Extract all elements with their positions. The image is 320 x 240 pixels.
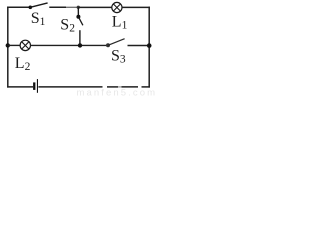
wire bottom-left segment bbox=[7, 86, 33, 88]
battery positive plate (long thin) bbox=[37, 79, 38, 93]
svg-text:manfen5.com: manfen5.com bbox=[77, 88, 158, 97]
switch S2 (vertical branch) bbox=[76, 7, 83, 45]
wire top-left segment bbox=[7, 6, 30, 8]
wire top middle segment bbox=[49, 6, 66, 8]
node junction middle (S2 branch bottom) bbox=[78, 43, 82, 47]
node junction top (S2 branch tap) bbox=[77, 6, 80, 9]
wire bottom dash 1 bbox=[107, 86, 118, 88]
switch S3 bbox=[106, 39, 125, 48]
node S2 pivot bbox=[76, 15, 80, 19]
battery cell bbox=[33, 79, 38, 93]
wire bottom middle segment bbox=[38, 86, 102, 88]
node junction left border / middle wire bbox=[6, 43, 10, 47]
wire bottom dash 2 bbox=[122, 86, 139, 88]
wire top gray segment bbox=[66, 6, 78, 8]
wire right border bbox=[148, 7, 150, 88]
wire top toward L1 bbox=[78, 6, 112, 8]
wire left border bbox=[7, 7, 9, 88]
wire bottom dash light bbox=[118, 86, 122, 88]
switch blade S2 bbox=[78, 17, 83, 26]
wire top-right segment bbox=[122, 6, 150, 8]
wire middle segment to S3 bbox=[31, 44, 109, 46]
node junction right border / middle wire bbox=[147, 43, 152, 48]
wire middle-left segment bbox=[8, 44, 20, 46]
wire S2 upper stub bbox=[77, 7, 79, 16]
wire bottom right corner segment bbox=[142, 86, 150, 88]
battery negative plate (short thick) bbox=[33, 82, 35, 90]
wire middle-right segment bbox=[128, 45, 150, 47]
lamp L2 bbox=[20, 40, 30, 50]
wire S2 lower stub bbox=[79, 30, 81, 45]
switch S1 bbox=[29, 3, 48, 9]
lamp L1 bbox=[112, 2, 122, 12]
